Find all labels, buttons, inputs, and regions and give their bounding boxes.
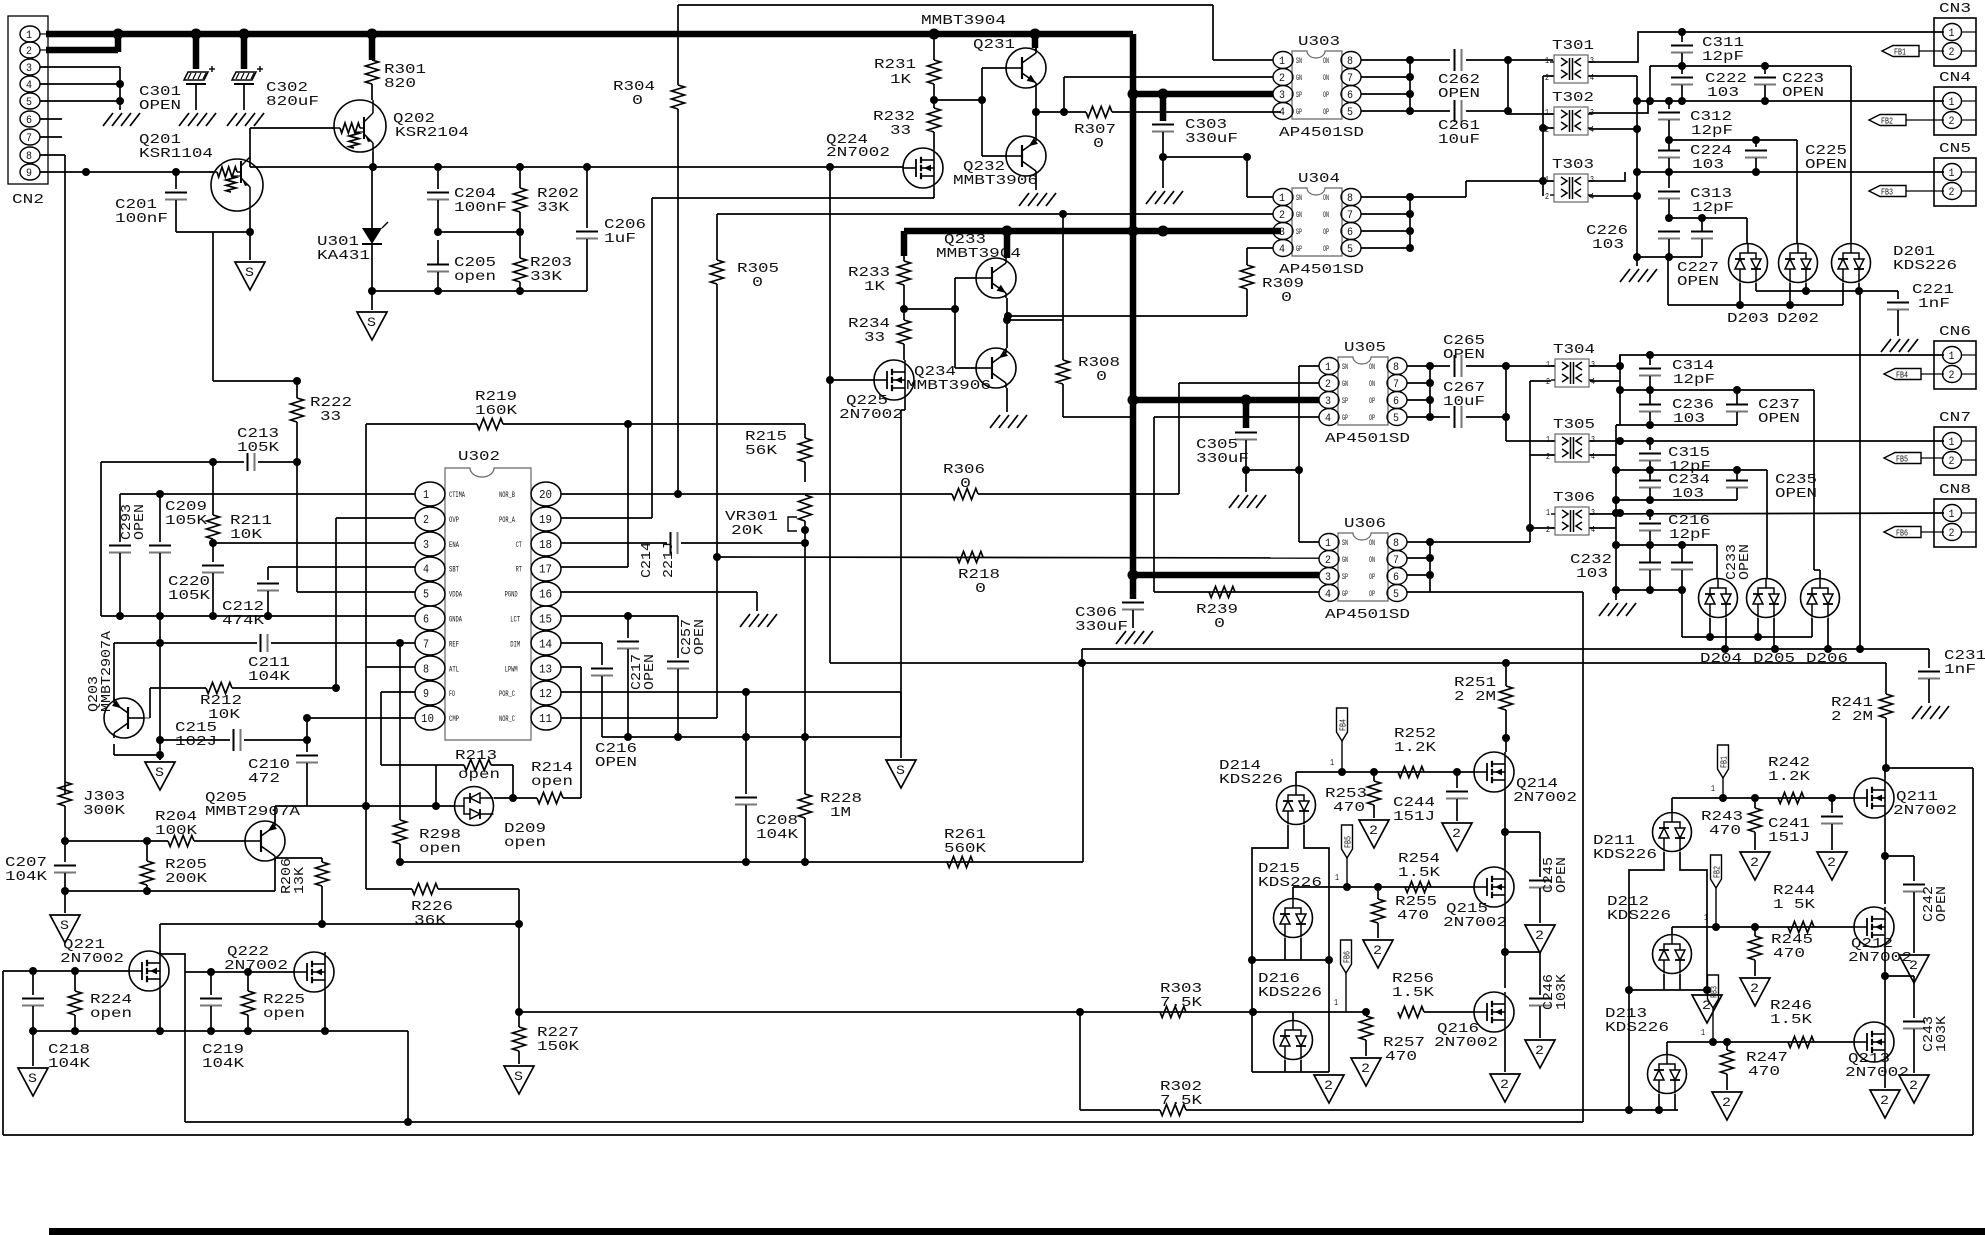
svg-text:AP4501SD: AP4501SD [1325,607,1410,623]
svg-text:2N7002: 2N7002 [1443,915,1507,931]
svg-text:OPEN: OPEN [139,98,181,114]
capacitor C227 [1701,218,1703,231]
dual diode D214 [1277,786,1316,825]
svg-text:1uF: 1uF [604,231,636,247]
wire Q214 gate row [1296,771,1474,773]
wire thick branch to U305 pin3 [1133,397,1319,404]
wire T301 pin1 [1508,61,1553,63]
wire diode left-pin row [1667,257,1669,305]
svg-text:FB3: FB3 [1881,188,1893,198]
svg-text:OP: OP [1323,108,1329,117]
svg-text:5: 5 [1347,107,1353,119]
wire Q215 channel [1504,907,1506,988]
capacitor C207 [64,841,66,862]
svg-text:4: 4 [1590,73,1594,83]
wire loop to Q222 gate [160,924,185,1122]
svg-text:SP: SP [1342,397,1348,406]
svg-text:CN6: CN6 [1939,324,1971,340]
resistor R225 [247,972,249,991]
wire pin4 SBT / capacitor C212 [268,566,415,568]
svg-text:1: 1 [26,30,32,42]
wire secondary return rail [1636,76,1638,266]
svg-text:CN8: CN8 [1939,482,1971,498]
svg-text:SP: SP [1342,573,1348,582]
wire D214 bank rails [1252,825,1288,1072]
svg-text:4: 4 [1279,107,1285,119]
wire R222 link row [213,380,297,382]
svg-text:T302: T302 [1552,90,1594,106]
svg-text:13: 13 [539,662,552,676]
ground 2 [1692,995,1722,1023]
ground 2 [1817,852,1847,880]
svg-text:3: 3 [1591,435,1595,445]
wire Q222 gate row [185,971,294,973]
wire pin14 DIM column [561,642,602,644]
svg-text:102J: 102J [175,734,217,750]
ground 2 [1525,925,1555,953]
svg-text:470: 470 [1385,1049,1417,1065]
ground [990,415,1000,428]
potentiometer VR301 [799,495,812,521]
wire primary rail links [1507,60,1509,111]
svg-text:1: 1 [1545,56,1549,66]
svg-text:8: 8 [1347,56,1353,68]
resistor R219 [366,423,477,425]
ground [1620,269,1630,282]
wire Q231/Q232 base rail [981,68,983,156]
svg-text:3: 3 [1590,175,1594,185]
svg-text:2N7002: 2N7002 [839,407,903,423]
svg-text:103: 103 [1592,237,1624,253]
wire U304 pin2 row [717,213,1273,215]
wire T302 pin3 to CN4 [1589,101,1648,113]
svg-text:ON: ON [1323,211,1329,220]
svg-text:3: 3 [1279,90,1285,102]
resistor R304 [677,5,679,85]
svg-text:8: 8 [26,151,32,163]
svg-text:FB5: FB5 [1344,836,1354,848]
svg-text:OPEN: OPEN [1737,544,1753,580]
svg-text:1K: 1K [864,279,886,295]
wire U305 right rail [1407,365,1430,367]
svg-text:20: 20 [539,488,552,502]
capacitor C257 [677,616,679,658]
wire C305 row to pin1 column [1246,469,1299,471]
svg-text:100nF: 100nF [115,211,168,227]
svg-text:2N7002: 2N7002 [1513,790,1577,806]
svg-text:OP: OP [1369,590,1375,599]
svg-text:ON: ON [1369,556,1375,565]
svg-text:104K: 104K [248,669,291,685]
net flag FB1 [1882,46,1919,57]
svg-text:NOR_B: NOR_B [499,491,515,500]
svg-text:100nF: 100nF [454,200,507,216]
wire CN6 feed column [1859,291,1861,649]
svg-text:2: 2 [1325,379,1331,391]
wire ch4 feed to D206 [1813,390,1815,570]
svg-text:8: 8 [1393,362,1399,374]
resistor R256 [1398,1007,1424,1018]
svg-text:OP: OP [1369,414,1375,423]
svg-text:4: 4 [1279,244,1285,256]
svg-text:2: 2 [423,513,429,527]
svg-text:OP: OP [1323,91,1329,100]
resistor R204 [65,840,168,842]
resistor R305 [716,214,718,260]
svg-text:103K: 103K [1554,973,1570,1010]
ground S [64,891,66,913]
svg-text:2: 2 [1545,125,1549,135]
svg-text:SN: SN [1296,194,1302,203]
svg-text:D204: D204 [1700,651,1742,667]
capacitor C314 [1649,355,1651,365]
transformer T303 [1554,174,1588,202]
capacitor C221 [1897,291,1899,299]
svg-text:2: 2 [1546,525,1550,535]
resistor R306 [952,489,978,500]
svg-text:OPEN: OPEN [1758,411,1800,427]
connector CN5 [1934,158,1976,206]
wire CN2 pin8 down-left column [40,154,65,156]
svg-text:17: 17 [539,563,552,577]
resistor J303 [64,155,66,782]
svg-text:1: 1 [1279,56,1285,68]
svg-text:8: 8 [423,662,429,676]
svg-text:FB6: FB6 [1343,951,1353,963]
svg-text:2: 2 [1722,1095,1731,1110]
svg-text:ON: ON [1369,380,1375,389]
connector CN2 [8,16,48,184]
svg-text:OPEN: OPEN [1805,157,1847,173]
svg-text:SP: SP [1296,91,1302,100]
svg-text:12pF: 12pF [1673,372,1715,388]
svg-text:2N7002: 2N7002 [1845,1065,1909,1081]
svg-text:0: 0 [1281,290,1292,306]
capacitor C201 [175,172,177,189]
svg-text:2: 2 [1279,210,1285,222]
svg-text:S: S [514,1069,523,1084]
dual diode D212 [1653,935,1692,974]
svg-text:GN: GN [1296,74,1302,83]
transistor Q225 2N7002 [874,360,914,400]
resistor R228 [804,543,806,794]
svg-text:4: 4 [423,563,429,577]
svg-text:7: 7 [1393,555,1399,567]
svg-text:2 2M: 2 2M [1831,709,1873,725]
transistor Q203 MMBT2907A [104,698,144,738]
svg-text:U303: U303 [1298,34,1340,50]
capacitor C315 [1649,441,1651,450]
svg-text:T304: T304 [1553,342,1595,358]
svg-text:300K: 300K [83,803,126,819]
resistor R231 [933,37,935,60]
svg-text:SN: SN [1342,539,1348,548]
capacitor C216 [591,668,613,670]
svg-text:6: 6 [1393,396,1399,408]
svg-text:OPEN: OPEN [1934,886,1950,922]
wire pin5 VDDA [297,591,415,593]
svg-text:VDDA: VDDA [449,591,462,600]
svg-text:1: 1 [1325,362,1331,374]
svg-text:open: open [419,841,461,857]
ground S [504,1066,534,1094]
dual diode D211 [1653,813,1692,852]
net flag FB3 [1869,186,1906,197]
wire thick branch to U306 pin3 [1133,572,1319,579]
svg-text:10: 10 [421,712,434,726]
svg-text:10uF: 10uF [1443,394,1485,410]
svg-text:ATL: ATL [449,665,459,674]
capacitor C226 [1658,231,1680,233]
wire pin7 REF row [114,642,257,644]
wire ch6 feed to D204 [1716,545,1718,578]
svg-text:2 2M: 2 2M [1454,689,1496,705]
svg-text:KSR2104: KSR2104 [395,125,469,141]
svg-text:1: 1 [1949,28,1955,40]
wire divider mid row [438,231,520,233]
ground [1245,470,1247,492]
svg-text:2N7002: 2N7002 [826,145,890,161]
svg-text:OP: OP [1369,573,1375,582]
wire ch2 feed to D202 [1796,140,1798,243]
svg-text:560K: 560K [944,841,987,857]
svg-text:5: 5 [26,97,32,109]
svg-text:OPEN: OPEN [692,619,708,655]
wire R251 feed [1505,663,1507,686]
capacitor C261 [1410,110,1450,112]
wire T306 pin3 to CN8 [1590,513,1944,514]
resistor R261 [947,857,973,868]
junction [900,305,908,313]
wire pin3 ENA row [213,542,415,544]
svg-text:0: 0 [1093,136,1104,152]
resistor R224 [74,971,76,991]
wire U305 pin1 to U306 pin1 [1298,366,1300,542]
net flag FB4 vertical [1337,708,1348,741]
svg-text:R231: R231 [874,57,916,73]
wire pin1 CTIMA row [120,493,415,495]
svg-text:1: 1 [1949,168,1955,180]
wire U304 pin8 rail [1361,196,1410,198]
svg-text:KDS226: KDS226 [1593,847,1657,863]
svg-text:1: 1 [1546,508,1550,518]
svg-text:1: 1 [1546,435,1550,445]
svg-text:open: open [504,835,546,851]
resistor R214 [494,797,537,799]
svg-text:CTIMA: CTIMA [449,491,465,500]
svg-text:1: 1 [1279,193,1285,205]
capacitor C303 [1160,94,1167,121]
connector CN7 [1934,427,1976,475]
svg-text:3: 3 [1325,396,1331,408]
transistor Q212 2N7002 [1854,907,1894,947]
svg-text:2: 2 [1949,47,1955,59]
svg-text:FB4: FB4 [1339,719,1349,731]
svg-text:4: 4 [1591,377,1595,387]
wire thick rail 2 [904,228,1281,235]
resistor R227 [518,889,520,1027]
wire R206 row [160,923,519,925]
transistor Q202 KSR2104 [334,100,386,152]
svg-text:330uF: 330uF [1185,131,1238,147]
capacitor C313 [1668,172,1670,188]
wire Q224 source row [933,188,935,198]
svg-text:open: open [458,767,500,783]
ground S [159,755,161,760]
resistor R254 [1405,882,1431,893]
svg-text:14: 14 [539,637,552,651]
capacitor C305 [1243,400,1250,428]
svg-text:330uF: 330uF [1196,451,1249,467]
svg-text:CMP: CMP [449,715,459,724]
capacitor C218 [32,971,34,995]
svg-text:KDS226: KDS226 [1258,985,1322,1001]
svg-text:470: 470 [1748,1064,1780,1080]
capacitor C222 [1681,66,1683,74]
svg-text:R213: R213 [455,748,497,764]
capacitor C301 [193,37,200,69]
svg-text:6: 6 [1347,90,1353,102]
wire thick branch to U304 pin3 [1128,395,1139,406]
svg-text:2: 2 [1546,377,1550,387]
resistor R203 [514,258,527,282]
wire source ground row [33,1030,408,1032]
svg-text:3: 3 [1279,227,1285,239]
svg-text:103: 103 [1707,85,1739,101]
dual diode D204 [1699,579,1738,618]
svg-text:200K: 200K [165,871,208,887]
svg-text:2N7002: 2N7002 [1434,1035,1498,1051]
svg-text:LCT: LCT [510,616,520,625]
svg-text:3: 3 [1590,56,1594,66]
transformer T302 [1554,107,1588,135]
svg-text:DIM: DIM [510,640,520,649]
svg-text:8: 8 [1347,193,1353,205]
svg-text:4: 4 [1325,589,1331,601]
svg-text:2: 2 [1545,192,1549,202]
wire row5 mid [1616,469,1767,471]
transistor Q211 2N7002 [1854,778,1894,818]
svg-text:470: 470 [1333,800,1365,816]
svg-text:FB1: FB1 [1720,756,1730,768]
wire primary link [1505,366,1507,441]
svg-text:2: 2 [1880,1093,1889,1108]
svg-text:2: 2 [1949,116,1955,128]
resistor R233 [903,256,905,261]
shunt reference U301 KA431 [371,167,373,222]
dual diode D215 [1274,899,1313,938]
svg-text:4: 4 [1591,525,1595,535]
resistor R215 [804,424,806,438]
svg-text:2: 2 [1750,855,1759,870]
svg-text:221J: 221J [661,542,677,578]
svg-text:SN: SN [1296,57,1302,66]
svg-text:820uF: 820uF [266,94,319,110]
svg-text:5: 5 [423,588,429,602]
ground [1881,339,1891,352]
svg-text:7: 7 [1347,73,1353,85]
wire Q202 emitter to node [372,152,374,167]
svg-text:1: 1 [1546,360,1550,370]
wire U305-U306 pin4 link [1153,417,1155,592]
svg-text:472: 472 [248,771,280,787]
svg-text:19: 19 [539,513,552,527]
svg-text:18: 18 [539,538,552,552]
ground 2 [1525,1040,1555,1068]
svg-text:1.2K: 1.2K [1768,769,1811,785]
connector CN4 [1934,87,1976,135]
svg-text:104K: 104K [5,869,48,885]
svg-text:FB2: FB2 [1881,117,1893,127]
svg-text:FB2: FB2 [1713,866,1723,878]
svg-text:LPWM: LPWM [505,665,518,674]
resistor R307 [1036,111,1086,113]
svg-text:103K: 103K [1934,1015,1950,1052]
svg-text:1 5K: 1 5K [1773,897,1816,913]
resistor R252 [1398,767,1424,778]
svg-text:1: 1 [1711,784,1715,794]
svg-text:1: 1 [1545,175,1549,185]
svg-text:S: S [28,1071,37,1086]
svg-text:MMBT3906: MMBT3906 [953,173,1038,189]
resistor R232 [928,108,941,132]
svg-text:10K: 10K [230,527,263,543]
wire base feed [934,99,982,101]
svg-text:AP4501SD: AP4501SD [1325,431,1410,447]
ground 2 [1490,1074,1520,1102]
resistor R298 [399,643,401,820]
capacitor C213 row [101,461,244,463]
capacitor C312 [1668,101,1670,109]
capacitor C225 [1755,140,1757,147]
wire Q234 collector to ground [1006,388,1008,412]
svg-text:2N7002: 2N7002 [1893,803,1957,819]
capacitor C311 [1681,32,1683,42]
wire R309 row [1008,315,1247,317]
ground 2 [1740,978,1770,1006]
transformer T304 [1555,359,1589,387]
wire U306 pin5 to feedback loop [1430,591,1583,593]
svg-text:T306: T306 [1553,490,1595,506]
capacitor C205 [427,264,449,266]
transistor Q233 MMBT3904 [976,258,1016,298]
svg-text:D205: D205 [1753,651,1795,667]
resistor R239 [1154,591,1319,593]
capacitor C293 [119,494,121,542]
wire mid row [400,861,1083,863]
resistor R241 [1885,663,1887,694]
wire T303 pin3 to CN5 [1589,172,1625,181]
transistor Q222 2N7002 [294,952,334,992]
ground [1599,603,1609,616]
svg-text:OPEN: OPEN [1438,86,1480,102]
resistor R211 [207,515,220,539]
svg-text:33K: 33K [537,200,570,216]
svg-text:2: 2 [1535,928,1544,943]
wire pin17 column RT [561,566,628,568]
ground 2 [1351,1058,1381,1086]
svg-text:T301: T301 [1552,38,1594,54]
svg-text:4: 4 [26,80,32,92]
resistor R302 [1079,1012,1081,1110]
svg-text:GP: GP [1296,108,1302,117]
svg-text:T305: T305 [1553,417,1595,433]
svg-text:FB1: FB1 [1894,48,1906,58]
svg-text:KDS226: KDS226 [1605,1020,1669,1036]
transistor Q201 KSR1104 [211,159,263,211]
capacitor C306 [1130,575,1137,599]
transistor Q215 2N7002 [1474,867,1514,907]
